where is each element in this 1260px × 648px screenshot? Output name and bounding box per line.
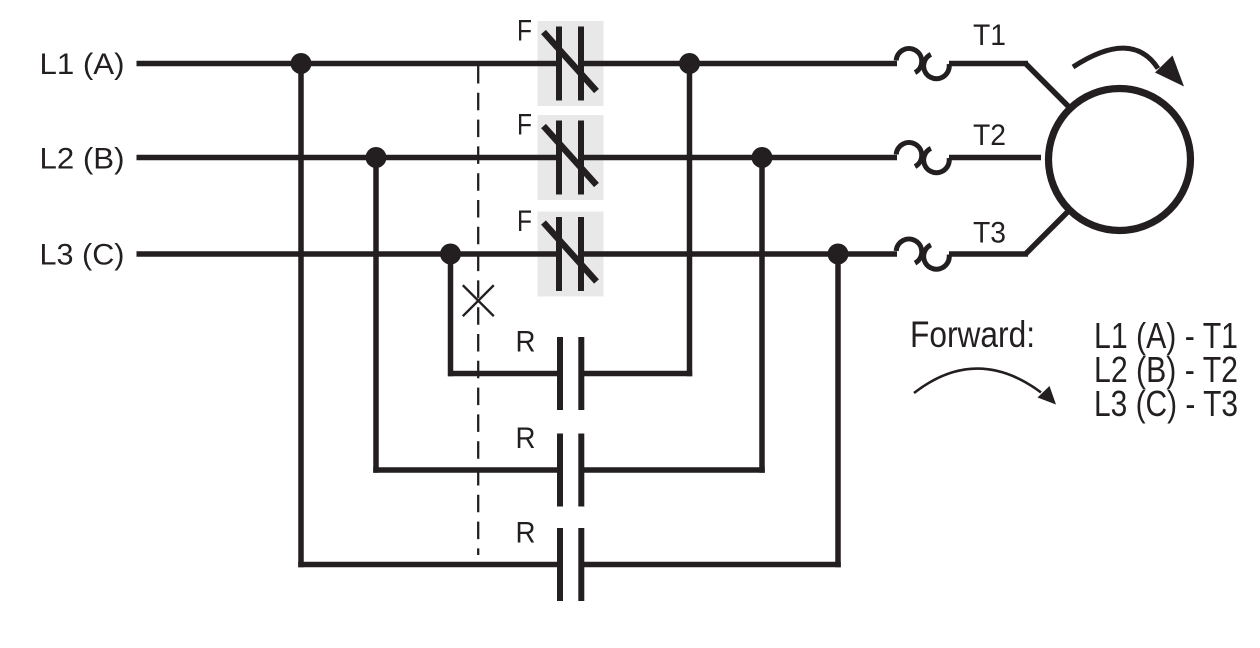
contact F2 left plate	[556, 121, 562, 195]
wire L3 middle segment	[583, 251, 897, 257]
overload heater OL2	[896, 143, 949, 173]
contact R3 left plate	[557, 528, 563, 601]
wire vertical from R1 up to L1 junction	[687, 64, 693, 377]
contact F2 highlight pad	[538, 115, 604, 200]
junction dot L2-T junction	[752, 147, 773, 168]
wire vertical from R2 up to L2 junction	[759, 158, 765, 473]
contact F3 left plate	[556, 217, 562, 291]
wire vertical from L2 tap down to R2	[373, 158, 379, 473]
wire R1 row left	[448, 371, 558, 377]
contact F3 highlight pad	[538, 212, 604, 297]
contact R3 right plate	[578, 528, 584, 601]
contact F1 NC slash	[544, 32, 597, 91]
junction dot L1-T junction	[679, 53, 700, 74]
wire vertical from L1 tap down to R3	[298, 64, 304, 568]
junction dot L2 tap	[366, 147, 387, 168]
svg-text:T3: T3	[973, 217, 1006, 250]
junction dot L3 tap	[440, 244, 461, 265]
contact R1 right plate	[578, 337, 584, 410]
overload heater OL3	[896, 239, 949, 269]
wire L2 after overload	[949, 155, 1041, 161]
svg-text:L2 (B): L2 (B)	[40, 143, 125, 176]
crossed-phases X mark	[463, 285, 494, 316]
dashed phase-swap axis	[477, 66, 479, 555]
svg-text:F: F	[517, 109, 532, 142]
wire R1 row right	[583, 371, 692, 377]
wire R2 row right	[583, 467, 765, 473]
contact F1 left plate	[556, 27, 562, 101]
wire L1 left segment	[137, 61, 558, 67]
svg-text:L1 (A): L1 (A)	[40, 48, 125, 81]
contact F3 NC slash	[544, 223, 597, 282]
contact F1 right plate	[578, 27, 584, 101]
contact R2 right plate	[578, 434, 584, 507]
contact R1 left plate	[557, 337, 563, 410]
contact F3 right plate	[578, 217, 584, 291]
svg-text:L3 (C): L3 (C)	[40, 239, 125, 272]
rotation direction arrow	[1073, 48, 1184, 86]
svg-text:Forward:: Forward:	[910, 314, 1035, 355]
overload heater OL1	[896, 49, 949, 79]
wire L1 middle segment	[583, 61, 897, 67]
wire L2 middle segment	[583, 155, 897, 161]
forward phase-order arrow	[914, 369, 1056, 405]
svg-text:R: R	[516, 422, 536, 455]
contact F2 right plate	[578, 121, 584, 195]
wire vertical from L3 tap down to R1	[448, 254, 454, 376]
svg-text:T1: T1	[973, 19, 1006, 52]
wire R2 row left	[373, 467, 557, 473]
contact R2 left plate	[557, 434, 563, 507]
contact F1 highlight pad	[538, 21, 604, 106]
svg-text:R: R	[516, 517, 536, 550]
wire L1 after overload	[949, 61, 1028, 67]
wire L2 left segment	[137, 155, 558, 161]
junction dot L1 tap	[291, 53, 312, 74]
wire L3 left segment	[137, 251, 558, 257]
svg-text:R: R	[516, 326, 536, 359]
wire T1 diagonal to motor	[1025, 63, 1069, 107]
wire R3 row left	[298, 562, 557, 568]
wire L3 after overload	[949, 251, 1028, 257]
svg-text:L3 (C) - T3: L3 (C) - T3	[1094, 383, 1238, 424]
svg-text:T2: T2	[973, 119, 1006, 152]
motor M	[1049, 89, 1191, 231]
junction dot L3-T junction	[828, 244, 849, 265]
wire R3 row right	[583, 562, 841, 568]
wire vertical from R3 up to L3 junction	[835, 254, 841, 567]
svg-text:F: F	[517, 15, 532, 48]
wire T3 diagonal to motor	[1025, 211, 1069, 255]
svg-text:F: F	[517, 205, 532, 238]
contact F2 NC slash	[544, 126, 597, 185]
